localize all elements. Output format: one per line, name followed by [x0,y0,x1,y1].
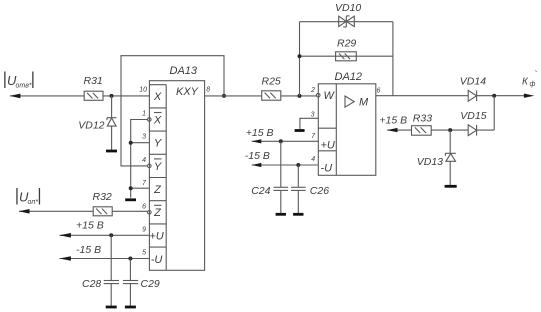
svg-text:VD10: VD10 [335,2,361,14]
svg-text:VD12: VD12 [78,120,104,132]
svg-text:+15 В: +15 В [76,220,104,232]
svg-text:+15 В: +15 В [246,127,274,139]
svg-text:`: ` [535,70,538,80]
node Uop output label [16,188,40,206]
svg-text:8: 8 [206,87,210,94]
capacitor C26 [291,165,329,213]
node junction output [492,94,496,98]
wire pin3 Y [131,142,150,144]
diode VD10 (bidirectional zener) [335,2,361,27]
svg-text:X: X [153,91,162,103]
wire feedback left vertical [299,22,301,96]
node junction feedback/output [222,94,226,98]
wire pin7 Z [131,187,150,189]
wire VD15 to R33 [431,129,468,131]
svg-text:Y: Y [154,161,162,173]
diode VD15 [460,110,486,135]
svg-text:M: M [359,97,369,109]
svg-text:7: 7 [311,133,316,140]
wire input rail to R31 [10,95,84,97]
node junction C28 [109,233,113,237]
ground VD13 [445,185,457,188]
arrow -15V left [59,256,71,261]
svg-text:6: 6 [142,203,146,210]
svg-text:10: 10 [139,86,147,93]
arrow output left Uop [19,209,30,214]
diode VD13 (zener) [417,130,456,185]
wire -15V to pin4 [252,164,318,166]
svg-text:-15 В: -15 В [245,150,270,162]
capacitor C29 [123,259,160,307]
resistor R29 [336,38,357,61]
svg-text:-15 В: -15 В [76,244,101,256]
svg-text:X: X [153,114,162,126]
resistor R31 [84,75,104,100]
arrow output left Uotv [10,94,21,99]
svg-text:VD15: VD15 [460,110,486,122]
op-amp divider DA12 [310,71,380,175]
arrow +15V DA12 [252,139,262,143]
svg-text:C24: C24 [251,185,270,197]
svg-text:R29: R29 [337,38,356,50]
svg-text:3: 3 [311,111,315,118]
node junction C26 [296,163,300,167]
svg-text:-U: -U [321,163,333,175]
ground C28 [106,306,117,309]
svg-text:C29: C29 [141,278,160,290]
wire feedback right vertical [392,22,394,96]
svg-text:VD13: VD13 [417,156,443,168]
node junction R31/VD12 [110,94,114,98]
svg-text:ф: ф [530,81,536,88]
svg-text:R33: R33 [413,113,432,125]
capacitor C28 [82,235,119,306]
svg-text:4: 4 [142,157,146,164]
diode VD12 (zener) [78,96,116,150]
svg-text:5: 5 [142,250,146,257]
svg-text:+15 В: +15 В [379,114,407,126]
ground VD12 [106,150,117,153]
svg-text:DA12: DA12 [335,71,363,83]
svg-text:+U: +U [149,231,163,243]
svg-text:4: 4 [311,156,315,163]
wire VD15 branch vertical [493,96,495,130]
svg-text:R25: R25 [262,76,281,88]
node Uotv input label [4,72,33,90]
wire VD15 branch horizontal [477,129,495,131]
capacitor C24 [251,141,288,213]
wire DA12 output to VD14 [376,95,468,97]
resistor R33 [412,113,433,136]
svg-text:3: 3 [142,134,146,141]
wire +15V rail to pin9 [60,234,150,236]
svg-text:оп*: оп* [28,199,39,206]
svg-text:отв*: отв* [16,83,32,90]
svg-text:2: 2 [310,87,315,94]
op-amp multiplier DA13 [139,65,210,270]
wire R25 to DA12 pin2 [281,95,317,97]
node junction R29 left [298,54,302,58]
wire DA13 pin8 to R25 [205,95,262,97]
wire pin6 Z̄ to R32 [112,210,147,212]
ground DA12 pin3 [295,129,305,132]
wire VD10 branch [300,21,393,23]
wire pin1 X̄ to tie column [131,120,148,198]
svg-text:R31: R31 [84,75,103,87]
svg-text:Y: Y [154,138,162,150]
svg-text:1: 1 [142,111,146,118]
ground C26 [293,213,303,216]
svg-text:К: К [522,77,529,88]
svg-text:C26: C26 [310,185,329,197]
resistor R32 [93,191,113,216]
wire R29 branch [300,55,393,57]
svg-text:VD14: VD14 [460,75,486,87]
node junction feedback left [298,94,302,98]
node junction Z tie [129,186,133,190]
svg-text:C28: C28 [82,278,101,290]
svg-text:9: 9 [142,227,146,234]
svg-text:R32: R32 [93,191,112,203]
arrow +15V left [59,233,71,238]
svg-text:7: 7 [142,180,147,187]
node junction C29 [128,257,132,261]
arrow output Kf [524,94,534,98]
svg-text:KXY: KXY [176,86,199,98]
node junction VD13 [448,128,452,132]
wire +15V to pin7 [252,140,318,142]
wire VD14 to output arrow [477,95,530,97]
ground X/Y/Z tie [125,198,136,201]
wire R31 to DA13 pin10 [103,95,149,97]
svg-text:+U: +U [321,140,335,152]
ground C24 [276,213,286,216]
wire -15V rail to pin5 [60,258,150,260]
svg-text:Z: Z [153,184,162,196]
node junction C24 [279,139,283,143]
resistor R25 [262,76,281,101]
wire pin3 to ground [300,118,318,129]
wire feedback DA13 output to pin 4 [121,56,224,166]
svg-text:W: W [324,90,336,102]
node junction Y tie [129,141,133,145]
wire R32 to output arrow [19,210,93,212]
wire R33 to +15V arrow [387,129,411,131]
svg-text:6: 6 [377,87,381,94]
node Kf label [522,70,538,89]
arrow -15V DA12 [252,163,262,167]
ground C29 [125,306,136,309]
svg-text:DA13: DA13 [170,65,198,77]
diode VD14 [460,75,486,101]
arrow +15V R33 [387,128,398,132]
svg-text:Z: Z [153,207,162,219]
svg-text:-U: -U [151,254,163,266]
